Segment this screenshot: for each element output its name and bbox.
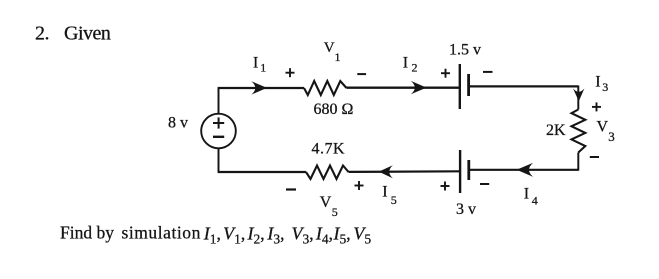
minus sign (V1 right) <box>357 73 366 75</box>
svg-text:2.: 2. <box>35 22 49 44</box>
svg-text:3 v: 3 v <box>456 201 476 218</box>
svg-text:4.7K: 4.7K <box>312 141 346 158</box>
minus sign (3v right) <box>480 183 489 185</box>
wire bottom-right horizontal <box>469 169 579 171</box>
arrow I3 <box>573 88 584 101</box>
plus sign (V5 right) <box>355 181 364 190</box>
svg-text:I1,V1,I2,I3,V3,I4,I5,V5: I1,V1,I2,I3,V3,I4,I5,V5 <box>203 223 372 246</box>
svg-text:3: 3 <box>602 80 608 94</box>
wire top-left horizontal <box>218 87 304 89</box>
arrow I5 <box>379 165 393 178</box>
svg-text:Given: Given <box>64 22 111 44</box>
wire right vertical upper <box>577 86 579 110</box>
plus sign (V1 left) <box>286 68 295 77</box>
label V5 <box>320 194 338 219</box>
plus sign (battery 1.5v left) <box>441 69 450 78</box>
voltage source VS 8v circle <box>201 114 236 149</box>
svg-text:V: V <box>320 194 332 211</box>
svg-text:1: 1 <box>335 50 341 64</box>
svg-text:5: 5 <box>332 205 338 219</box>
svg-text:680 Ω: 680 Ω <box>314 101 354 118</box>
label I1 <box>253 54 266 74</box>
wire bottom-left horizontal <box>218 171 306 173</box>
svg-text:1.5 v: 1.5 v <box>449 42 481 59</box>
label I5 <box>382 184 397 208</box>
wire right vertical lower <box>577 153 579 171</box>
label I3 <box>595 73 608 94</box>
svg-text:I: I <box>253 54 258 71</box>
battery B1 1.5v <box>460 64 469 109</box>
svg-text:I: I <box>382 184 387 201</box>
svg-text:5: 5 <box>391 193 397 207</box>
arrow I2 <box>411 81 427 94</box>
plus sign (V3 top) <box>592 102 601 111</box>
svg-text:3: 3 <box>608 129 615 144</box>
svg-text:8 v: 8 v <box>168 115 188 132</box>
battery B2 3v <box>460 150 469 193</box>
label I2 <box>403 55 418 75</box>
minus sign (V5 left) <box>286 188 296 190</box>
resistor R5 4.7K <box>306 166 349 180</box>
svg-text:4: 4 <box>532 193 538 207</box>
svg-text:I: I <box>524 185 529 202</box>
svg-text:2: 2 <box>412 60 418 74</box>
svg-text:V: V <box>597 119 609 136</box>
resistor R1 680ohm <box>304 81 347 95</box>
minus sign (battery 1.5v right) <box>483 71 493 73</box>
svg-text:I: I <box>403 55 408 72</box>
plus sign (3v left) <box>441 182 450 191</box>
svg-text:2K: 2K <box>546 122 566 139</box>
wire left-top vertical <box>218 88 220 114</box>
label V3 <box>597 119 615 145</box>
svg-text:1: 1 <box>260 60 266 74</box>
resistor R3 2K vertical <box>572 110 586 153</box>
title "2. Given" <box>35 22 111 44</box>
minus sign (V3 bottom) <box>590 156 599 158</box>
wire bottom-middle horizontal <box>349 170 461 173</box>
label I4 <box>524 185 538 207</box>
arrow I4 <box>517 163 534 177</box>
svg-text:V: V <box>324 40 335 56</box>
arrow I1 <box>251 81 267 94</box>
label V1 <box>324 40 341 64</box>
svg-text:Find bysimulation: Find bysimulation <box>60 222 201 242</box>
wire top-middle horizontal <box>347 87 460 89</box>
wire left-bottom vertical <box>218 148 220 172</box>
svg-text:I: I <box>595 73 600 90</box>
wire top-right horizontal <box>469 85 579 87</box>
